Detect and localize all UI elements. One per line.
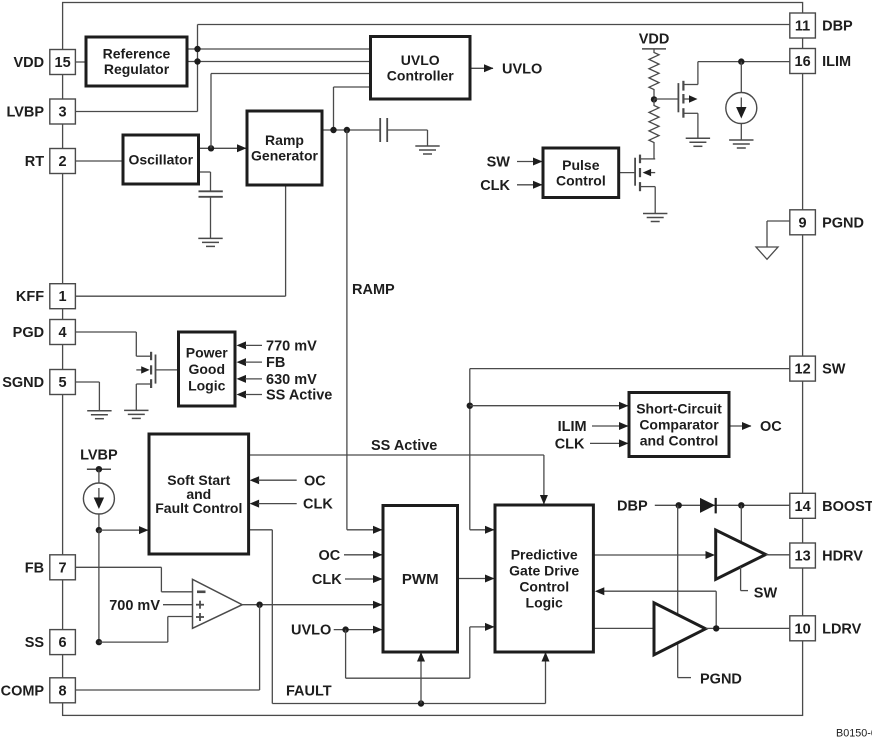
svg-text:8: 8: [59, 683, 67, 699]
svg-text:SW: SW: [487, 155, 511, 171]
svg-text:ILIM: ILIM: [822, 54, 851, 70]
svg-text:16: 16: [795, 54, 811, 70]
svg-text:CLK: CLK: [480, 178, 510, 194]
svg-text:OC: OC: [304, 473, 326, 489]
block Short-Circuit Comparator and Control: [629, 393, 729, 457]
node LVBP rail: [96, 466, 102, 472]
wire VDD pin to Reference Regulator: [75, 61, 86, 63]
wire SW to Short-Circuit Comparator: [470, 405, 628, 407]
ground below ramp capacitor: [415, 145, 439, 147]
wire FAULT from Soft Start: [249, 529, 273, 531]
buffer U2 high side driver HDRV: [716, 530, 766, 579]
svg-text:SGND: SGND: [2, 375, 44, 391]
svg-text:OC: OC: [760, 419, 782, 435]
block UVLO Controller: [371, 37, 471, 100]
svg-text:LDRV: LDRV: [822, 621, 862, 637]
block Pulse Control: [543, 148, 619, 198]
wire Ramp Generator output: [322, 129, 380, 131]
svg-text:Good: Good: [188, 361, 225, 377]
node oscillator output junction: [208, 145, 214, 151]
svg-text:SS Active: SS Active: [371, 438, 437, 454]
svg-text:14: 14: [795, 499, 811, 515]
wire SS pin to error amplifier: [99, 641, 168, 643]
node ramp junction 2: [344, 127, 350, 133]
svg-text:15: 15: [55, 55, 71, 71]
wire Reference Regulator output lower to UVLO Controller: [187, 61, 371, 63]
svg-text:CLK: CLK: [312, 572, 342, 588]
block Reference Regulator: [86, 37, 187, 86]
svg-text:RAMP: RAMP: [352, 282, 395, 298]
wire Oscillator output to Ramp Generator: [199, 147, 247, 149]
wire KFF pin to Ramp Generator: [75, 295, 285, 297]
node COMP junction: [256, 602, 262, 608]
svg-text:PGND: PGND: [700, 671, 742, 687]
svg-text:B0150-01: B0150-01: [836, 728, 872, 738]
svg-text:Predictive: Predictive: [511, 546, 578, 562]
svg-text:UVLO: UVLO: [401, 52, 440, 68]
wire CLK into Pulse Control: [517, 184, 542, 186]
node junction on upper reference line: [194, 46, 200, 52]
node junction on lower reference line: [194, 58, 200, 64]
capacitor on oscillator timing node: [199, 171, 211, 173]
wire SS Active from Soft Start to Predictive logic: [249, 454, 544, 456]
wire UVLO to Predictive logic: [345, 630, 347, 679]
wire FB pin to error amplifier: [75, 566, 161, 568]
svg-text:DBP: DBP: [822, 19, 853, 35]
svg-text:VDD: VDD: [13, 55, 44, 71]
svg-text:LVBP: LVBP: [6, 105, 44, 121]
buffer U3 low side driver LDRV: [677, 505, 679, 615]
ground below Q1 source: [686, 137, 710, 139]
node BOOST junction: [738, 502, 744, 508]
svg-text:FB: FB: [266, 355, 285, 371]
wire LDRV feedback to Predictive logic: [715, 591, 717, 628]
svg-text:630 mV: 630 mV: [266, 372, 317, 388]
wire DBP to boost diode: [655, 504, 790, 506]
svg-text:13: 13: [795, 549, 811, 565]
wire PGD pin to power good fet drain: [75, 331, 136, 333]
pin 11 DBP: [790, 13, 816, 38]
svg-text:FB: FB: [25, 560, 44, 576]
reference input 630 mV to Power Good Logic: [237, 375, 247, 383]
svg-text:Control: Control: [556, 172, 606, 188]
svg-text:11: 11: [795, 19, 810, 35]
block Oscillator: [123, 135, 199, 184]
svg-text:RT: RT: [25, 154, 44, 170]
ground below current source I1: [729, 139, 753, 141]
svg-text:4: 4: [59, 325, 67, 341]
pin 15 VDD: [50, 50, 76, 75]
svg-text:770 mV: 770 mV: [266, 339, 317, 355]
wire UVLO into PWM: [334, 629, 382, 631]
pin 7 FB: [50, 555, 76, 580]
wire PGND pin ground arrow: [767, 220, 790, 222]
svg-text:Gate Drive: Gate Drive: [509, 562, 579, 578]
block PWM: [383, 506, 458, 653]
transistor Q2 pulse control fet: [619, 172, 635, 174]
block Power Good Logic: [179, 332, 236, 406]
pin 1 KFF: [50, 284, 76, 309]
svg-text:Oscillator: Oscillator: [128, 151, 193, 167]
wire soft start node to SS pin: [98, 530, 100, 642]
svg-text:Pulse: Pulse: [562, 157, 600, 173]
wire soft start source into Soft Start block: [99, 529, 148, 531]
resistor upper of ILIM divider: [653, 49, 655, 51]
node SW branch junction: [467, 403, 473, 409]
pin 8 COMP: [50, 678, 76, 703]
pin 2 RT: [50, 149, 76, 174]
node soft start junction: [96, 527, 102, 533]
svg-text:Logic: Logic: [526, 594, 564, 610]
svg-text:6: 6: [59, 635, 67, 651]
block Soft Start and Fault Control: [149, 434, 249, 554]
wire high side driver to HDRV pin: [766, 554, 790, 556]
svg-text:COMP: COMP: [1, 683, 45, 699]
wire ILIM net to pin 16: [698, 61, 790, 63]
wire SW to Predictive logic: [470, 529, 494, 531]
svg-text:VDD: VDD: [639, 32, 670, 48]
capacitor on ramp node: [379, 118, 381, 142]
svg-text:9: 9: [799, 215, 807, 231]
wire Predictive logic to high side driver: [593, 554, 708, 556]
node ramp junction 1: [330, 127, 336, 133]
svg-text:KFF: KFF: [16, 289, 44, 305]
svg-text:Short-Circuit: Short-Circuit: [636, 400, 722, 416]
pin 6 SS: [50, 630, 76, 655]
ground on SGND: [87, 410, 111, 412]
svg-text:CLK: CLK: [555, 436, 585, 452]
svg-text:LVBP: LVBP: [80, 448, 118, 464]
reference input SS Active to Power Good Logic: [237, 391, 247, 399]
svg-text:PGND: PGND: [822, 215, 864, 231]
diode D1 bootstrap: [700, 498, 715, 513]
svg-text:CLK: CLK: [303, 497, 333, 513]
svg-text:12: 12: [795, 362, 811, 378]
wire low side driver to LDRV pin: [706, 627, 790, 629]
svg-text:UVLO: UVLO: [502, 61, 542, 77]
svg-text:FAULT: FAULT: [286, 683, 332, 699]
svg-text:OC: OC: [318, 548, 340, 564]
signal label OC into Soft Start: [250, 476, 260, 484]
node DBP junction: [676, 502, 682, 508]
svg-text:SS Active: SS Active: [266, 388, 332, 404]
svg-text:Control: Control: [519, 578, 569, 594]
svg-text:SW: SW: [822, 362, 846, 378]
wire SW return of high side driver: [740, 567, 742, 591]
svg-text:3: 3: [59, 105, 67, 121]
wire oscillator clock to UVLO Controller: [210, 74, 212, 149]
node LDRV junction: [713, 625, 719, 631]
svg-text:Reference: Reference: [103, 46, 171, 62]
pin 5 SGND: [50, 370, 76, 395]
svg-text:Logic: Logic: [188, 377, 226, 393]
svg-text:1: 1: [59, 289, 67, 305]
wire BOOST supply into high side driver: [740, 505, 742, 542]
svg-text:10: 10: [795, 621, 811, 637]
svg-text:Ramp: Ramp: [265, 132, 304, 148]
transistor Q1 current limit sense fet: [654, 98, 678, 100]
svg-text:Fault Control: Fault Control: [155, 500, 242, 516]
current source I2 soft start: [98, 469, 100, 483]
block Predictive Gate Drive Control Logic: [495, 505, 593, 652]
svg-text:Power: Power: [186, 344, 229, 360]
pin 16 ILIM: [790, 49, 816, 74]
wire LVBP riser to DBP: [75, 111, 197, 113]
reference input FB to Power Good Logic: [237, 358, 247, 366]
svg-text:7: 7: [59, 560, 67, 576]
wire RT pin to Oscillator: [75, 160, 123, 162]
wire SGND pin to ground: [75, 381, 99, 383]
svg-text:5: 5: [59, 375, 67, 391]
wire FAULT to PWM bottom: [420, 653, 422, 704]
wire ramp node to UVLO Controller: [333, 87, 335, 130]
block Ramp Generator: [247, 111, 322, 185]
ground below Q3 source: [124, 409, 148, 411]
svg-text:DBP: DBP: [617, 498, 648, 514]
svg-text:HDRV: HDRV: [822, 549, 863, 565]
node FAULT junction: [418, 700, 424, 706]
pin 4 PGD: [50, 320, 76, 345]
wire error amplifier output to PWM: [242, 604, 382, 606]
wire COMP pin to amplifier output: [259, 605, 261, 690]
pin 3 LVBP: [50, 99, 76, 124]
svg-text:and Control: and Control: [640, 432, 719, 448]
reference input 770 mV to Power Good Logic: [237, 341, 247, 349]
svg-text:SW: SW: [754, 586, 778, 602]
pin 10 LDRV: [790, 616, 816, 641]
node ILIM divider tap: [651, 96, 657, 102]
pin 14 BOOST: [790, 493, 816, 518]
svg-text:2: 2: [59, 154, 67, 170]
svg-text:Controller: Controller: [387, 67, 454, 83]
pin 9 PGND: [790, 210, 816, 235]
resistor lower of ILIM divider: [653, 99, 655, 104]
svg-text:UVLO: UVLO: [291, 623, 331, 639]
svg-text:SS: SS: [25, 635, 45, 651]
svg-text:PWM: PWM: [402, 571, 439, 588]
svg-text:Comparator: Comparator: [639, 416, 719, 432]
wire SW pin net: [470, 368, 790, 370]
wire FAULT to Predictive logic bottom: [545, 653, 547, 704]
ground below Q2 source: [643, 213, 667, 215]
node UVLO junction: [342, 626, 348, 632]
transistor Q3 power good fet (mirrored): [136, 355, 151, 357]
svg-text:Generator: Generator: [251, 148, 318, 164]
wire Reference Regulator output upper to UVLO Controller: [187, 48, 371, 50]
svg-text:700 mV: 700 mV: [109, 598, 160, 614]
svg-text:PGD: PGD: [13, 325, 44, 341]
ground below oscillator capacitor: [198, 237, 222, 239]
wire Predictive logic to low side driver: [593, 627, 654, 629]
wire PWM output to Predictive logic: [458, 578, 495, 580]
signal label CLK into Soft Start: [250, 500, 260, 508]
pin 12 SW: [790, 356, 816, 381]
current source I1 on ILIM pin: [726, 93, 757, 124]
wire OC output of Short-Circuit Comparator: [729, 425, 751, 427]
svg-text:BOOST: BOOST: [822, 499, 872, 515]
svg-text:ILIM: ILIM: [558, 419, 587, 435]
wire UVLO Controller output: [470, 67, 493, 69]
node ILIM junction: [738, 58, 744, 64]
node SS pin junction: [96, 639, 102, 645]
svg-text:Regulator: Regulator: [104, 61, 170, 77]
pin 13 HDRV: [790, 543, 816, 568]
op-amp U1 error amplifier: [193, 579, 243, 628]
wire RAMP vertical to PWM: [346, 130, 348, 530]
wire SW into Pulse Control: [517, 161, 542, 163]
